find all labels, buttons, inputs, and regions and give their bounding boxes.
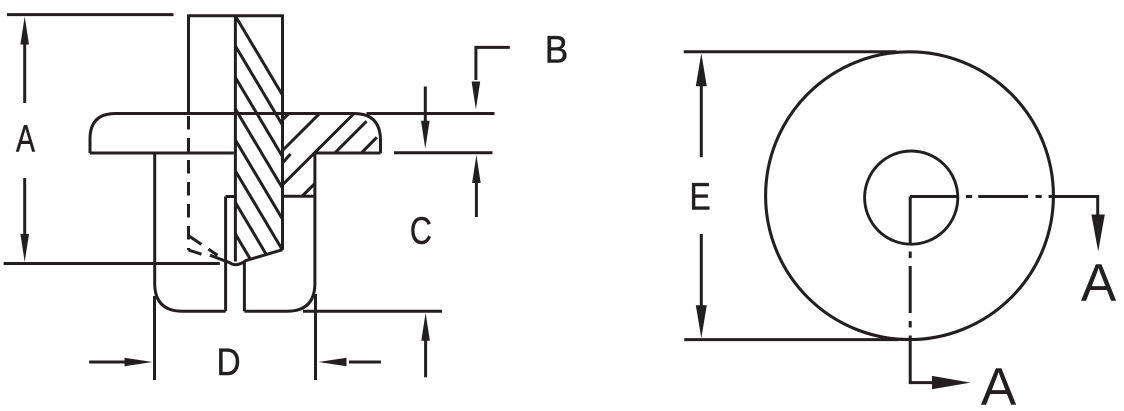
dimension C upper arrow bbox=[421, 87, 430, 149]
flange bottom right edge bbox=[315, 152, 381, 155]
dimension E lower arrow bbox=[696, 234, 707, 338]
section line vertical (dash-dot) bbox=[909, 197, 912, 383]
dimension B leader bbox=[476, 47, 510, 80]
dimension B upper arrow bbox=[472, 82, 481, 110]
svg-text:B: B bbox=[545, 30, 569, 72]
svg-text:A: A bbox=[1081, 253, 1117, 312]
pin hatch 8 bbox=[235, 234, 250, 260]
section line horizontal (dash-dot) bbox=[910, 195, 1098, 198]
dimension E bottom extension line bbox=[684, 338, 899, 341]
dimension D left extension line bbox=[153, 296, 156, 380]
slot right edge bbox=[243, 262, 246, 311]
svg-text:E: E bbox=[690, 176, 711, 218]
dimension B extension line top bbox=[367, 112, 495, 115]
dimension A top extension line bbox=[7, 13, 174, 16]
dimension A bottom extension line bbox=[4, 262, 220, 265]
dimension C extension line bottom bbox=[303, 310, 442, 313]
pin hatch 5 bbox=[235, 140, 282, 219]
dimension B lower arrow bbox=[472, 155, 481, 217]
dimension D right arrow bbox=[319, 358, 381, 367]
flange outline bbox=[90, 114, 381, 154]
slot left edge bbox=[224, 197, 227, 312]
pin hatch 6 bbox=[235, 171, 282, 250]
flange bottom left edge bbox=[90, 152, 234, 155]
flange hatch 5 bbox=[362, 137, 377, 153]
section arrow bottom side bbox=[909, 376, 971, 389]
pin hatch 7 bbox=[235, 203, 266, 256]
body right outline bbox=[244, 153, 315, 311]
dimension D right extension line bbox=[314, 294, 317, 380]
flange hatch 3 bbox=[283, 114, 354, 185]
body hatch upper bbox=[283, 154, 291, 163]
dimension C lower arrow bbox=[421, 313, 430, 378]
pin left edge hidden (dashed) bbox=[187, 116, 190, 250]
dimension D left arrow bbox=[89, 358, 152, 367]
pin left edge (visible) bbox=[187, 15, 190, 114]
flange hatch 4 bbox=[335, 121, 367, 153]
dimension A upper arrow bbox=[20, 17, 29, 104]
pin hatch 2 bbox=[235, 46, 282, 125]
dimension E upper arrow bbox=[696, 53, 707, 157]
dimension A lower arrow bbox=[20, 178, 29, 262]
pin hatch 4 bbox=[235, 109, 282, 188]
section arrow right side bbox=[1091, 195, 1104, 252]
head top view outer circle bbox=[766, 52, 1054, 340]
flange hatch 1 bbox=[283, 114, 289, 120]
body hatch corner bbox=[302, 184, 315, 197]
head top view hole circle bbox=[865, 151, 958, 244]
pin right edge bbox=[281, 15, 284, 250]
svg-text:C: C bbox=[410, 211, 432, 253]
svg-text:A: A bbox=[981, 357, 1017, 411]
svg-text:A: A bbox=[16, 118, 35, 160]
pin tip outline bbox=[210, 250, 283, 265]
pin hatch 1 bbox=[235, 16, 282, 95]
flange hatch 2 bbox=[283, 114, 320, 151]
slot top edge section bbox=[283, 195, 315, 198]
pin hatch 3 bbox=[235, 78, 282, 157]
pin hidden cone slant upper (dashed) bbox=[189, 236, 218, 255]
pin hidden cone slant lower (dashed) bbox=[189, 250, 202, 254]
dimension E top extension line bbox=[684, 50, 897, 53]
pin section left edge at centerline bbox=[234, 15, 237, 262]
pin top edge bbox=[187, 14, 284, 17]
svg-text:D: D bbox=[217, 342, 241, 384]
body left outline bbox=[155, 153, 226, 311]
slot top edge external bbox=[226, 195, 237, 198]
dimension B extension line bottom bbox=[394, 151, 493, 154]
